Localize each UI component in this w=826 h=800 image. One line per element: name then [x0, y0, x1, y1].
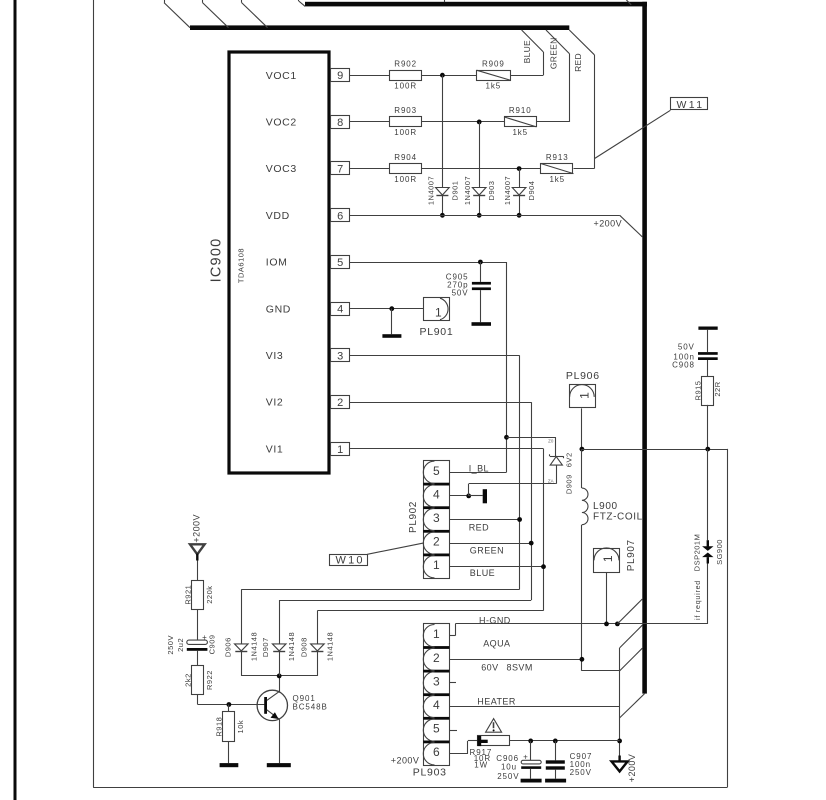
- svg-text:22R: 22R: [713, 381, 722, 396]
- svg-text:BLUE: BLUE: [522, 40, 532, 63]
- svg-text:BLUE: BLUE: [470, 568, 495, 578]
- svg-text:7: 7: [337, 164, 343, 176]
- svg-text:R918: R918: [215, 717, 224, 737]
- svg-text:+: +: [523, 753, 528, 762]
- svg-text:100R: 100R: [394, 175, 417, 184]
- svg-text:250V: 250V: [497, 772, 519, 781]
- svg-text:GND: GND: [266, 303, 291, 315]
- svg-text:D903: D903: [487, 181, 496, 201]
- svg-text:50V: 50V: [452, 289, 469, 298]
- svg-text:60V: 60V: [481, 663, 498, 673]
- svg-text:5: 5: [337, 257, 343, 269]
- svg-text:250V: 250V: [166, 635, 175, 655]
- svg-text:D907: D907: [261, 637, 270, 657]
- svg-text:L900: L900: [593, 501, 618, 512]
- svg-text:250V: 250V: [570, 768, 592, 777]
- svg-text:1W: 1W: [474, 760, 488, 769]
- svg-text:H-GND: H-GND: [479, 615, 511, 625]
- svg-text:ZA: ZA: [548, 479, 554, 484]
- svg-text:1: 1: [601, 555, 615, 562]
- svg-text:C909: C909: [208, 634, 217, 654]
- svg-text:1N4148: 1N4148: [325, 632, 334, 661]
- svg-text:AQUA: AQUA: [483, 639, 510, 649]
- svg-text:PL903: PL903: [413, 767, 447, 779]
- svg-text:+200V: +200V: [391, 756, 420, 766]
- svg-text:D909: D909: [564, 474, 573, 494]
- svg-text:6V2: 6V2: [564, 452, 573, 467]
- svg-text:1N4007: 1N4007: [503, 176, 512, 205]
- svg-text:SG900: SG900: [715, 539, 724, 565]
- svg-text:+: +: [202, 633, 207, 642]
- svg-text:PL901: PL901: [420, 326, 454, 338]
- svg-text:Z0: Z0: [548, 438, 554, 443]
- svg-text:R921: R921: [183, 585, 192, 605]
- svg-text:+200V: +200V: [627, 754, 637, 783]
- svg-text:1k5: 1k5: [486, 81, 502, 90]
- svg-text:2: 2: [433, 535, 440, 549]
- svg-text:PL907: PL907: [626, 539, 637, 571]
- svg-text:3: 3: [337, 350, 343, 362]
- svg-text:W10: W10: [336, 555, 365, 567]
- svg-text:8: 8: [337, 117, 343, 129]
- svg-text:50V: 50V: [678, 342, 695, 351]
- svg-text:R904: R904: [394, 153, 417, 162]
- svg-text:RED: RED: [469, 522, 489, 532]
- svg-text:+200V: +200V: [594, 219, 623, 229]
- svg-text:4: 4: [433, 487, 440, 501]
- svg-text:1: 1: [577, 392, 591, 399]
- svg-text:3: 3: [433, 674, 440, 688]
- svg-text:IC900: IC900: [209, 238, 225, 283]
- svg-text:1N4148: 1N4148: [287, 632, 296, 661]
- svg-text:GREEN: GREEN: [470, 546, 504, 556]
- svg-text:PL902: PL902: [408, 501, 419, 533]
- svg-text:DSP201M: DSP201M: [693, 534, 702, 572]
- svg-text:PL906: PL906: [566, 370, 600, 382]
- svg-text:1N4007: 1N4007: [426, 176, 435, 205]
- svg-text:TDA6108: TDA6108: [236, 248, 245, 283]
- svg-text:C908: C908: [672, 361, 695, 370]
- svg-text:1N4148: 1N4148: [249, 632, 258, 661]
- svg-text:1k5: 1k5: [512, 128, 528, 137]
- svg-text:VOC3: VOC3: [266, 163, 297, 175]
- svg-text:R902: R902: [394, 60, 417, 69]
- svg-text:VOC2: VOC2: [266, 117, 297, 129]
- svg-text:6: 6: [337, 210, 343, 222]
- svg-text:HEATER: HEATER: [477, 696, 516, 706]
- svg-text:2: 2: [433, 651, 440, 665]
- svg-text:8SVM: 8SVM: [507, 663, 533, 673]
- svg-text:RED: RED: [573, 53, 583, 72]
- svg-text:D904: D904: [527, 181, 536, 201]
- svg-text:VI3: VI3: [266, 350, 284, 362]
- svg-text:6: 6: [433, 745, 440, 759]
- svg-text:5: 5: [433, 464, 440, 478]
- svg-text:2: 2: [337, 397, 343, 409]
- svg-text:VOC1: VOC1: [266, 70, 297, 82]
- svg-text:1: 1: [433, 627, 440, 641]
- svg-text:R903: R903: [394, 106, 417, 115]
- svg-text:VI1: VI1: [266, 443, 284, 455]
- svg-text:9: 9: [337, 70, 343, 82]
- svg-text:1: 1: [435, 306, 442, 320]
- svg-text:5: 5: [433, 722, 440, 736]
- svg-text:GREEN: GREEN: [548, 37, 558, 69]
- svg-text:1k5: 1k5: [549, 175, 565, 184]
- svg-text:220k: 220k: [205, 586, 214, 604]
- svg-text:1N4007: 1N4007: [463, 176, 472, 205]
- svg-text:D906: D906: [223, 637, 232, 657]
- svg-text:W11: W11: [677, 99, 705, 111]
- svg-text:100R: 100R: [394, 81, 417, 90]
- svg-text:VDD: VDD: [266, 210, 290, 222]
- svg-text:4: 4: [433, 698, 440, 712]
- svg-text:R915: R915: [693, 381, 702, 401]
- svg-text:1: 1: [433, 558, 440, 572]
- svg-text:4: 4: [337, 304, 343, 316]
- svg-text:1: 1: [337, 444, 343, 456]
- svg-text:D901: D901: [450, 181, 459, 201]
- svg-text:3: 3: [433, 511, 440, 525]
- svg-text:D908: D908: [299, 637, 308, 657]
- svg-text:if required: if required: [695, 580, 702, 620]
- svg-text:100R: 100R: [394, 128, 417, 137]
- svg-text:2u2: 2u2: [176, 638, 185, 652]
- svg-text:VI2: VI2: [266, 397, 284, 409]
- svg-text:10u: 10u: [501, 762, 517, 771]
- svg-text:IOM: IOM: [266, 257, 288, 269]
- svg-text:BC548B: BC548B: [293, 703, 328, 712]
- svg-text:+200V: +200V: [192, 514, 202, 543]
- svg-text:R909: R909: [482, 60, 505, 69]
- svg-text:FTZ-COIL: FTZ-COIL: [593, 512, 643, 523]
- svg-text:I_BL: I_BL: [469, 464, 489, 474]
- svg-text:R913: R913: [546, 153, 569, 162]
- svg-text:R910: R910: [509, 106, 532, 115]
- svg-text:2k2: 2k2: [183, 673, 192, 687]
- svg-text:R922: R922: [205, 670, 214, 690]
- svg-text:10k: 10k: [236, 720, 245, 734]
